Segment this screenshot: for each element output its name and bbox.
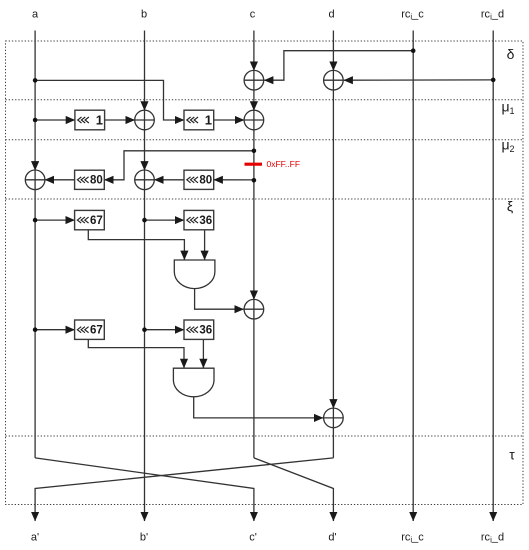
wire a branch to box2 (delta to mu1) bbox=[35, 80, 184, 120]
wire b xor3 to xor6 bbox=[144, 130, 146, 171]
box text <<<1 B1 bbox=[78, 113, 103, 128]
wire c top segment bbox=[253, 31, 255, 71]
svg-text:rci_c: rci_c bbox=[401, 9, 424, 22]
junction dot b xi lower bbox=[142, 327, 147, 332]
junction dot rc_i_c delta bbox=[411, 48, 416, 53]
wire and1 to xor7 bbox=[195, 289, 244, 310]
wire box1 to xor3 (mu1) bbox=[105, 119, 135, 121]
wire box5 to and1 left input bbox=[88, 230, 184, 260]
svg-text:c: c bbox=[250, 9, 256, 21]
wire c tap to box3 (mu2) bbox=[104, 151, 254, 180]
xor X2 (d, delta) bbox=[324, 70, 344, 90]
svg-text:b': b' bbox=[140, 532, 148, 544]
wire tau diagonal d to a' bbox=[35, 458, 333, 521]
box text <<<67 B5 bbox=[77, 215, 102, 227]
svg-text:80: 80 bbox=[199, 175, 212, 187]
svg-text:δ: δ bbox=[507, 46, 515, 62]
svg-text:rci_d: rci_d bbox=[481, 9, 504, 22]
svg-text:67: 67 bbox=[90, 325, 103, 337]
junction dot c mu2 lower bbox=[252, 178, 257, 183]
svg-text:a: a bbox=[32, 9, 39, 21]
wire a top segment bbox=[34, 31, 36, 171]
wire box4 to xor6 (mu2) bbox=[154, 179, 184, 181]
svg-text:μ2: μ2 bbox=[501, 137, 514, 155]
svg-text:rci_c: rci_c bbox=[401, 532, 424, 545]
dotted separator mu2/xi bbox=[6, 198, 524, 200]
wire a to box5 (xi) bbox=[35, 219, 75, 221]
svg-text:80: 80 bbox=[90, 175, 103, 187]
wire c xor4 down to xor7 bbox=[253, 130, 255, 300]
box text <<<80 B3 bbox=[77, 175, 102, 187]
xor X6 (b, mu2) bbox=[135, 170, 155, 190]
wire d top segment bbox=[332, 31, 334, 71]
svg-text:1: 1 bbox=[96, 113, 103, 128]
rotate box B2 <<<1 bbox=[184, 110, 214, 130]
wire a to box7 (xi lower) bbox=[35, 329, 75, 331]
dotted separator mu1/mu2 bbox=[6, 139, 524, 141]
rotate box B7 <<<67 bbox=[75, 320, 105, 339]
rotate box B6 <<<36 bbox=[184, 210, 214, 229]
wire b xor6 down to b' bbox=[144, 190, 146, 521]
wire rc_i_c vertical bbox=[412, 31, 414, 522]
wire and2 to xor8 bbox=[194, 397, 323, 418]
junction dot c mu2 upper bbox=[252, 149, 257, 154]
wire a mid segment (xor5 out to tau elbow) bbox=[34, 190, 36, 458]
junction dot a xi lower bbox=[33, 327, 38, 332]
svg-text:1: 1 bbox=[205, 113, 212, 128]
wire box3 to xor5 (mu2) bbox=[45, 179, 75, 181]
svg-text:rci_d: rci_d bbox=[481, 532, 504, 545]
wire c xor7 to tau elbow bbox=[253, 319, 255, 458]
rotate box B3 <<<80 bbox=[75, 170, 105, 189]
xor X1 (c, delta) bbox=[244, 70, 264, 90]
junction dot a xi bbox=[33, 218, 38, 223]
rotate box B5 <<<67 bbox=[75, 210, 105, 229]
mask red dash on c bbox=[245, 163, 263, 166]
wire tau diagonal c to d' bbox=[254, 458, 334, 521]
junction dot a delta branch bbox=[33, 78, 38, 83]
svg-text:67: 67 bbox=[90, 215, 103, 227]
box text <<<1 B2 bbox=[187, 113, 212, 128]
dotted separator xi/tau bbox=[6, 435, 524, 437]
wire rc_i_c to xor1 (delta) bbox=[264, 51, 413, 80]
svg-text:d': d' bbox=[328, 532, 336, 544]
junction dot b xi bbox=[142, 218, 147, 223]
dotted separator delta/mu1 bbox=[6, 99, 524, 101]
xor X5 (a, mu2) bbox=[25, 170, 45, 190]
svg-text:a': a' bbox=[31, 532, 39, 544]
wire box7 to and2 left input bbox=[88, 339, 184, 368]
rotate box B1 <<<1 bbox=[75, 110, 105, 130]
xor X7 (c, xi) bbox=[244, 299, 264, 319]
svg-text:36: 36 bbox=[199, 215, 212, 227]
svg-text:ξ: ξ bbox=[507, 198, 513, 214]
junction dot a mu1 bbox=[33, 118, 38, 123]
wire b to box6 (xi) bbox=[145, 219, 185, 221]
svg-text:c': c' bbox=[249, 532, 257, 544]
wire box2 to xor4 (mu1) bbox=[214, 119, 244, 121]
xor X4 (c, mu1) bbox=[244, 110, 264, 130]
rotate box B4 <<<80 bbox=[184, 170, 214, 189]
wire d xor2 down to xor8 bbox=[332, 90, 334, 408]
wire rc_i_d vertical bbox=[492, 31, 494, 522]
and gate G2 bbox=[173, 368, 214, 397]
svg-text:36: 36 bbox=[199, 325, 212, 337]
svg-text:μ1: μ1 bbox=[501, 99, 514, 117]
box text <<<67 B7 bbox=[77, 325, 102, 337]
xor X8 (d, xi) bbox=[324, 408, 344, 428]
svg-text:τ: τ bbox=[509, 447, 515, 463]
wire rc_i_d to xor2 (delta) bbox=[344, 79, 494, 81]
svg-text:0xFF..FF: 0xFF..FF bbox=[267, 159, 301, 169]
and gate G1 bbox=[174, 260, 215, 289]
junction dot rc_i_d delta bbox=[491, 78, 496, 83]
wire b top segment bbox=[144, 31, 146, 111]
wire d xor8 to tau elbow bbox=[332, 428, 334, 458]
wire tau diagonal a to c' bbox=[35, 458, 254, 521]
box text <<<36 B8 bbox=[187, 325, 212, 337]
wire box6 to and1 right input bbox=[204, 230, 206, 260]
wire c xor1 to xor4 bbox=[253, 90, 255, 110]
wire a to box1 (mu1) bbox=[35, 119, 75, 121]
wire b to box8 (xi lower) bbox=[145, 329, 185, 331]
svg-text:d: d bbox=[328, 9, 334, 21]
wire c tap to box4 (mu2) bbox=[214, 179, 254, 181]
box text <<<80 B4 bbox=[187, 175, 212, 187]
rotate box B8 <<<36 bbox=[184, 320, 214, 339]
wire box8 to and2 right input bbox=[202, 339, 204, 368]
box text <<<36 B6 bbox=[187, 215, 212, 227]
svg-text:b: b bbox=[141, 9, 147, 21]
xor X3 (b, mu1) bbox=[135, 110, 155, 130]
